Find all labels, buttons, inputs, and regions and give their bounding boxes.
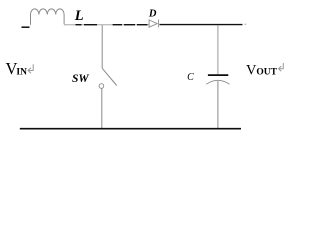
svg-text:IN: IN — [16, 68, 27, 78]
wire: top rail black dash 2 — [84, 24, 97, 26]
label D — [148, 9, 157, 20]
wire: top rail end dot — [245, 24, 247, 25]
inductor L — [31, 9, 65, 25]
switch SW blade — [102, 68, 117, 85]
diode D — [149, 19, 159, 27]
label VIN — [6, 59, 28, 78]
svg-text:C: C — [187, 72, 194, 83]
capacitor C bottom curved plate — [206, 80, 229, 84]
label SW — [72, 73, 89, 85]
wire: top rail black dash 3 — [113, 24, 122, 26]
svg-text:SW: SW — [72, 73, 89, 85]
label VOUT — [246, 62, 278, 78]
pilcrow return mark after VOUT — [279, 63, 284, 71]
wire: switch to bottom rail — [101, 88, 103, 128]
capacitor C top plate — [208, 74, 228, 76]
svg-text:D: D — [148, 9, 157, 20]
wire: top rail black dash 1 — [76, 24, 82, 26]
wire: input stub (top left) — [22, 26, 30, 28]
wire: top rail (diode to output node) — [160, 24, 247, 25]
switch SW contact circle — [99, 84, 104, 89]
wire: top rail to capacitor — [217, 25, 219, 74]
wire: top rail black dash 5 — [137, 24, 148, 26]
svg-text:V: V — [246, 62, 257, 78]
pilcrow return mark after VIN — [28, 64, 33, 73]
wire: capacitor to bottom rail — [217, 81, 219, 128]
label L — [74, 8, 84, 24]
svg-text:OUT: OUT — [256, 68, 277, 78]
label C — [187, 72, 194, 83]
wire: top rail black dash 4 — [124, 24, 135, 26]
node: switch junction / wire down to switch — [101, 25, 103, 68]
wire: bottom rail — [20, 128, 241, 130]
wire: top rail gray base (inductor to diode) — [64, 24, 149, 26]
svg-text:L: L — [74, 8, 84, 24]
